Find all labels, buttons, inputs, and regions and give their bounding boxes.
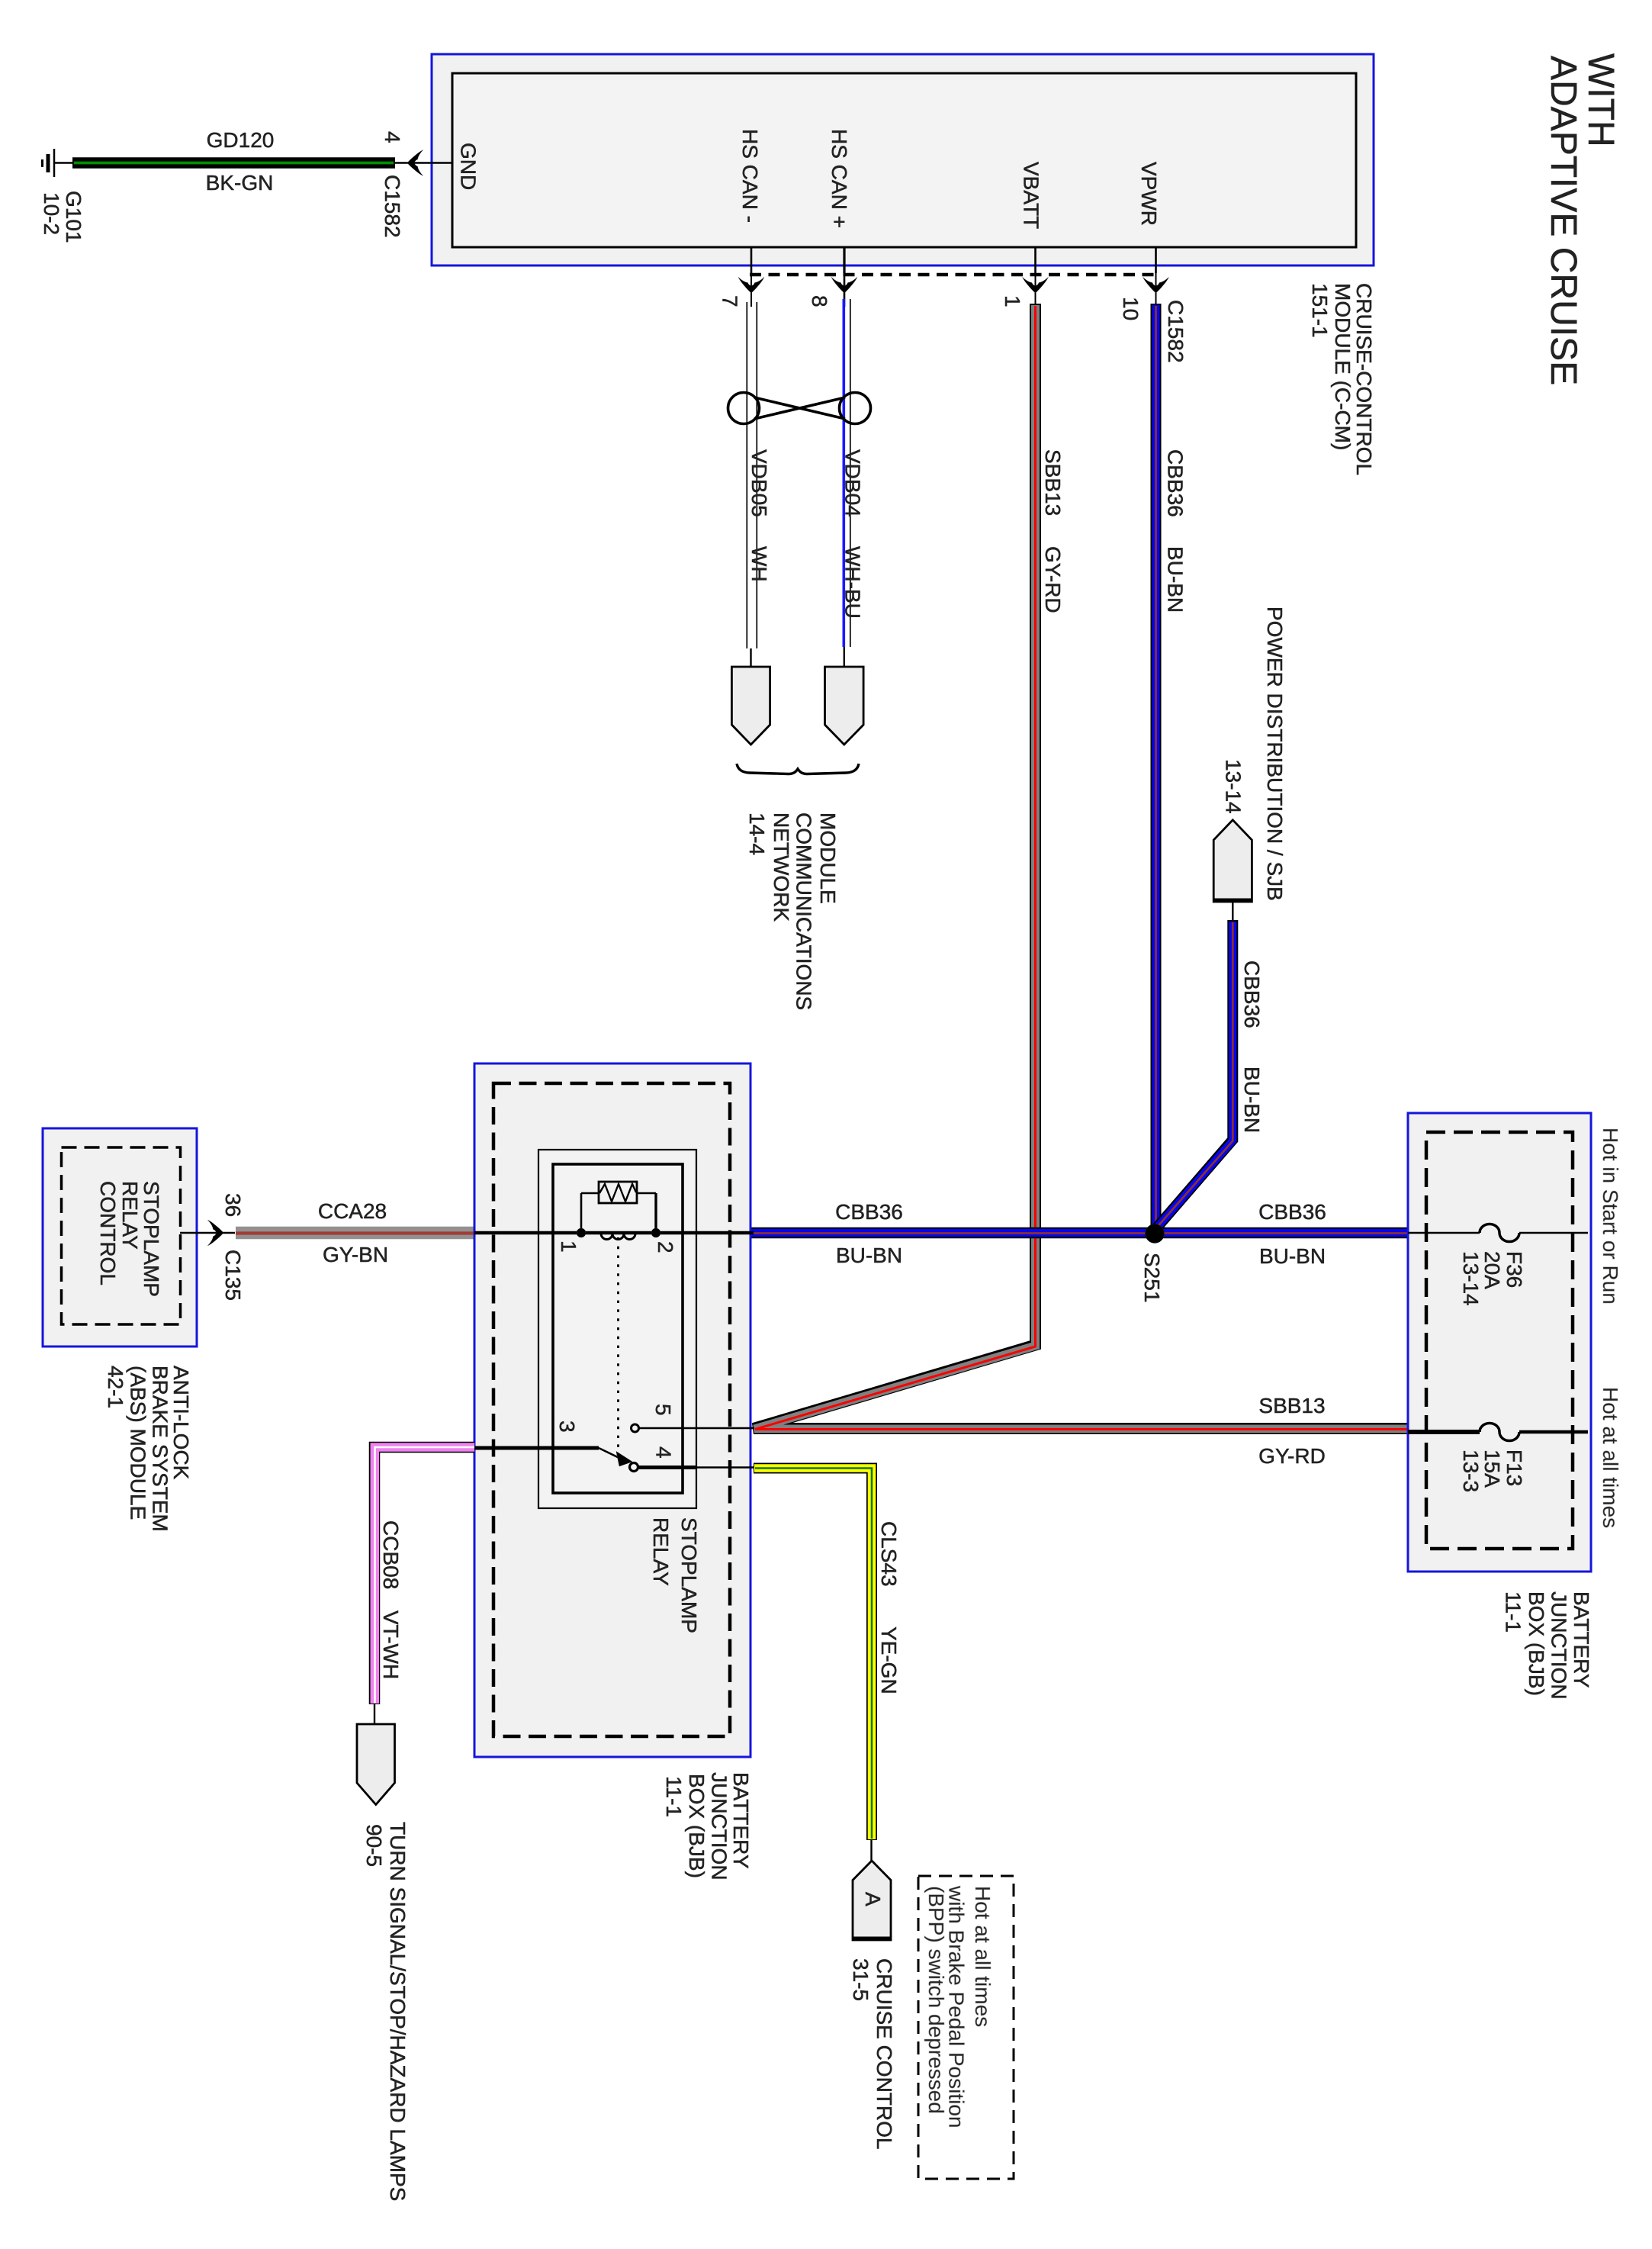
svg-text:20A: 20A — [1480, 1251, 1504, 1289]
svg-text:GY-RD: GY-RD — [1258, 1444, 1326, 1468]
svg-text:BOX (BJB): BOX (BJB) — [685, 1774, 709, 1878]
svg-text:MODULE (C-CM): MODULE (C-CM) — [1331, 283, 1355, 450]
svg-text:90-5: 90-5 — [362, 1824, 386, 1867]
svg-text:CRUISE-CONTROL: CRUISE-CONTROL — [1352, 283, 1376, 475]
svg-text:CONTROL: CONTROL — [96, 1181, 120, 1285]
wire: thin lead into module — [395, 162, 452, 163]
wire CBB36 BU-BN from VPWR pin 10 — [1151, 304, 1162, 1230]
relay actuator dotted link — [617, 1237, 619, 1447]
svg-text:WH-BU: WH-BU — [841, 546, 865, 619]
svg-text:A: A — [861, 1892, 885, 1906]
svg-text:BOX (BJB): BOX (BJB) — [1525, 1591, 1548, 1696]
svg-text:C1582: C1582 — [381, 175, 404, 238]
wire CCB08 VT-WH — [374, 1447, 474, 1704]
svg-text:1: 1 — [1001, 295, 1024, 307]
svg-text:CCA28: CCA28 — [318, 1199, 387, 1223]
svg-text:36: 36 — [221, 1193, 245, 1217]
wire CLS43 YE-GN — [754, 1469, 872, 1841]
svg-text:CCB08: CCB08 — [379, 1520, 403, 1589]
svg-text:GY-BN: GY-BN — [323, 1243, 388, 1266]
pin 8 arrow — [831, 278, 857, 294]
connector A to CRUISE CONTROL 31-5 — [853, 1861, 891, 1940]
svg-text:BU-BN: BU-BN — [1259, 1244, 1326, 1268]
svg-text:WH: WH — [747, 546, 771, 582]
pin 10 arrow — [1143, 278, 1169, 294]
svg-text:POWER DISTRIBUTION / SJB: POWER DISTRIBUTION / SJB — [1263, 606, 1287, 901]
relay K1 STOPLAMP RELAY outer box (battery junction box) — [474, 1063, 750, 1757]
svg-text:GD120: GD120 — [207, 128, 275, 152]
svg-text:Hot in Start or Run: Hot in Start or Run — [1599, 1128, 1622, 1305]
svg-text:VDB04: VDB04 — [841, 449, 865, 517]
wire CBB36 BU-BN branch from SJB — [1156, 920, 1233, 1228]
svg-text:15A: 15A — [1480, 1449, 1504, 1488]
node pin 1 / node pin 2 junction dots — [577, 1228, 586, 1237]
wire VDB05 WH (double line) — [746, 302, 747, 648]
svg-text:Hot at all times: Hot at all times — [1599, 1387, 1622, 1528]
svg-text:10: 10 — [1119, 297, 1143, 320]
svg-text:BRAKE SYSTEM: BRAKE SYSTEM — [149, 1366, 172, 1532]
twisted pair symbol — [728, 393, 871, 424]
svg-text:CBB36: CBB36 — [1164, 449, 1188, 517]
svg-text:ADAPTIVE CRUISE: ADAPTIVE CRUISE — [1543, 56, 1583, 385]
wire from relay pin 5 — [639, 1427, 754, 1429]
module BATTERY JUNCTION BOX (BJB) fuse box — [1408, 1113, 1591, 1572]
svg-text:(ABS) MODULE: (ABS) MODULE — [127, 1366, 150, 1520]
svg-text:CLS43: CLS43 — [877, 1521, 901, 1587]
svg-text:CBB36: CBB36 — [835, 1200, 903, 1224]
svg-text:3: 3 — [555, 1421, 579, 1433]
svg-text:RELAY: RELAY — [118, 1181, 142, 1250]
wire GD120 BK-GN (ground wire) — [72, 157, 395, 169]
wire VDB04 WH-BU — [843, 299, 846, 647]
svg-text:JUNCTION: JUNCTION — [708, 1772, 731, 1881]
pin stubs from module — [750, 247, 753, 273]
wire from relay pin 4 — [638, 1466, 697, 1469]
svg-text:BU-BN: BU-BN — [836, 1244, 902, 1267]
svg-text:COMMUNICATIONS: COMMUNICATIONS — [792, 812, 815, 1010]
svg-text:GND: GND — [457, 143, 480, 190]
svg-text:G101: G101 — [62, 191, 85, 243]
pin 1 arrow — [1023, 278, 1049, 294]
svg-text:TURN SIGNAL/STOP/HAZARD LAMPS: TURN SIGNAL/STOP/HAZARD LAMPS — [386, 1822, 410, 2201]
svg-text:CRUISE CONTROL: CRUISE CONTROL — [873, 1958, 896, 2149]
svg-text:SBB13: SBB13 — [1258, 1394, 1325, 1417]
svg-text:VDB05: VDB05 — [747, 449, 771, 517]
connector C135 pin 36 arrow — [208, 1220, 224, 1246]
module U1 CRUISE-CONTROL MODULE (C-CM) box — [432, 54, 1374, 265]
svg-text:MODULE: MODULE — [816, 812, 840, 904]
wire CCA28 GY-BN — [236, 1227, 474, 1240]
svg-text:ANTI-LOCK: ANTI-LOCK — [169, 1366, 193, 1480]
connector C1582 pin 4 arrow — [407, 150, 423, 176]
svg-text:WITH: WITH — [1580, 53, 1621, 147]
svg-text:CBB36: CBB36 — [1258, 1200, 1326, 1224]
svg-text:BATTERY: BATTERY — [729, 1772, 753, 1869]
svg-text:RELAY: RELAY — [649, 1517, 673, 1586]
svg-text:F13: F13 — [1503, 1449, 1526, 1486]
svg-text:C1582: C1582 — [1164, 300, 1188, 363]
lead from ABS box — [180, 1232, 235, 1234]
resistor R1 (relay suppression resistor) — [599, 1182, 637, 1203]
svg-text:4: 4 — [652, 1446, 676, 1459]
brace — [737, 764, 859, 774]
wire: coil feed through relay (CCA28 to CBB36) — [474, 1231, 754, 1235]
svg-text:5: 5 — [651, 1404, 675, 1416]
power distribution connector (up) — [1213, 820, 1252, 902]
svg-text:C135: C135 — [221, 1250, 245, 1301]
svg-text:STOPLAMP: STOPLAMP — [677, 1517, 701, 1633]
svg-text:JUNCTION: JUNCTION — [1548, 1591, 1571, 1700]
svg-text:BU-BN: BU-BN — [1164, 546, 1188, 613]
relay K1 body — [538, 1150, 696, 1508]
svg-text:STOPLAMP: STOPLAMP — [140, 1181, 163, 1297]
svg-text:VPWR: VPWR — [1137, 162, 1161, 226]
svg-text:1: 1 — [557, 1240, 580, 1253]
svg-text:151-1: 151-1 — [1308, 283, 1332, 338]
svg-text:10-2: 10-2 — [40, 192, 63, 235]
svg-text:7: 7 — [718, 295, 742, 307]
fuse F36 20A 13-14 — [1408, 1232, 1480, 1234]
svg-text:YE-GN: YE-GN — [877, 1626, 901, 1694]
svg-text:HS CAN -: HS CAN - — [738, 129, 762, 223]
svg-text:F36: F36 — [1503, 1251, 1526, 1288]
inductor L1 relay coil — [601, 1234, 635, 1240]
fuse F13 15A 13-3 — [1408, 1430, 1480, 1434]
svg-text:BATTERY: BATTERY — [1570, 1591, 1593, 1688]
svg-text:13-3: 13-3 — [1459, 1449, 1483, 1492]
relay switch contacts pins 5 and 4 — [632, 1424, 639, 1432]
svg-text:31-5: 31-5 — [849, 1958, 873, 2001]
ground G101 symbol — [53, 149, 56, 177]
connector to TURN SIGNAL/STOP/HAZARD LAMPS 90-5 — [357, 1724, 395, 1805]
svg-text:VT-WH: VT-WH — [379, 1610, 403, 1679]
relay switch arm (pin 3 common) — [474, 1446, 599, 1450]
lead stubs into comm connectors — [750, 648, 751, 668]
svg-text:11-1: 11-1 — [1502, 1591, 1525, 1633]
svg-text:GY-RD: GY-RD — [1041, 546, 1065, 613]
svg-text:13-14: 13-14 — [1459, 1251, 1483, 1306]
svg-text:4: 4 — [381, 131, 404, 143]
svg-text:HS CAN +: HS CAN + — [828, 129, 851, 228]
splice S251 — [1146, 1224, 1165, 1244]
wire SBB13 GY-RD from VBATT pin 1 — [754, 304, 1409, 1429]
svg-text:14-4: 14-4 — [745, 812, 769, 855]
svg-text:BU-BN: BU-BN — [1240, 1067, 1264, 1133]
svg-text:(BPP) switch depressed: (BPP) switch depressed — [924, 1886, 948, 2114]
wire CBB36 BU-BN horizontal bus — [750, 1227, 1409, 1239]
svg-text:11-1: 11-1 — [662, 1776, 686, 1817]
svg-text:SBB13: SBB13 — [1041, 449, 1065, 516]
svg-text:NETWORK: NETWORK — [770, 812, 793, 922]
svg-text:CBB36: CBB36 — [1240, 960, 1264, 1028]
svg-text:VBATT: VBATT — [1020, 162, 1043, 229]
connector (module communications, right) — [825, 667, 864, 745]
svg-text:42-1: 42-1 — [104, 1366, 127, 1408]
connector (module communications, left) — [731, 667, 770, 745]
svg-text:8: 8 — [808, 295, 831, 307]
svg-text:BK-GN: BK-GN — [206, 171, 274, 195]
module ABS (STOPLAMP RELAY CONTROL) box — [43, 1128, 197, 1347]
note box: Hot at all times with Brake Pedal Position (BPP) switch depressed — [918, 1876, 1014, 2179]
pin 7 arrow — [738, 278, 764, 294]
connector C1582 dashed line under module — [750, 273, 1157, 277]
svg-text:2: 2 — [654, 1241, 677, 1253]
svg-text:13-14: 13-14 — [1222, 759, 1245, 814]
svg-text:Hot at all times: Hot at all times — [971, 1886, 995, 2027]
svg-text:S251: S251 — [1140, 1253, 1164, 1302]
